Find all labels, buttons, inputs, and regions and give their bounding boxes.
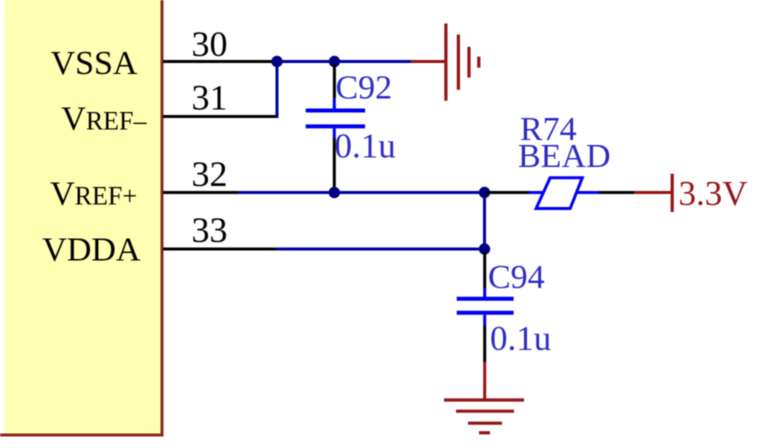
wire power lead (dark red) <box>634 191 671 194</box>
svg-text:0.1u: 0.1u <box>490 319 551 358</box>
wire bead to power (black) <box>599 191 634 194</box>
power symbol 3.3V bar <box>671 174 674 212</box>
wire junction to bead (black) <box>486 191 529 194</box>
ground G2 (earth ground) <box>444 400 524 433</box>
wire C94 to ground G2 (dark red) <box>483 362 486 400</box>
wire pin33 stub (black) <box>163 248 276 251</box>
wire pin32 stub (black) <box>163 191 238 194</box>
wire VREF+ row (blue) <box>238 191 486 194</box>
junction node C92 bottom <box>329 187 340 198</box>
capacitor C94 <box>457 252 514 362</box>
junction node pin30/riser <box>271 56 282 67</box>
ferrite bead R74 <box>529 178 599 209</box>
svg-text:30: 30 <box>192 24 228 64</box>
svg-text:VREF+: VREF+ <box>50 176 137 213</box>
svg-text:C92: C92 <box>336 70 393 107</box>
svg-text:31: 31 <box>192 78 228 118</box>
svg-text:3.3V: 3.3V <box>679 174 748 213</box>
svg-text:VDDA: VDDA <box>42 232 141 269</box>
wire VDDA-VREF+ vertical (blue) <box>483 193 486 250</box>
wire to ground G1 (dark red) <box>411 60 446 63</box>
wire VREF- vertical riser (blue) <box>276 62 279 119</box>
wire VSSA row (blue) <box>273 60 411 63</box>
svg-text:VSSA: VSSA <box>51 45 138 82</box>
svg-text:0.1u: 0.1u <box>335 127 396 166</box>
IC body (yellow part outline) <box>0 0 164 435</box>
capacitor C92 <box>306 64 365 192</box>
wire pin31 stub (black) <box>163 115 279 118</box>
junction node VREF+/VDDA/C94 <box>479 187 490 198</box>
wire pin30 stub (black) <box>163 60 273 63</box>
svg-text:32: 32 <box>192 154 228 194</box>
svg-text:VREF–: VREF– <box>61 101 147 138</box>
junction node C92 top <box>329 56 340 67</box>
junction node VDDA row <box>479 243 490 254</box>
svg-text:33: 33 <box>192 210 228 250</box>
ground G1 (rotated earth ground) <box>446 24 479 101</box>
svg-text:C94: C94 <box>488 259 545 296</box>
wire VDDA row (blue) <box>276 248 486 251</box>
svg-text:BEAD: BEAD <box>518 138 611 175</box>
